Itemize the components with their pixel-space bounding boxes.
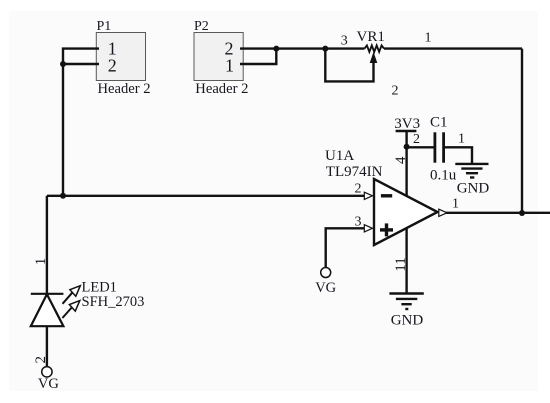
svg-text:P2: P2 (194, 19, 209, 34)
wire P1 pin1 to left vertical (63, 49, 99, 64)
wire op-amp pin4 power (405, 147, 407, 200)
svg-text:P1: P1 (97, 19, 112, 34)
svg-text:3: 3 (341, 34, 348, 49)
ground symbol at C1 (455, 164, 488, 178)
wire P2 pin1 loop (240, 49, 276, 64)
header P2 (194, 33, 243, 81)
svg-text:SFH_2703: SFH_2703 (82, 294, 145, 310)
wire P2 to VR1 node (276, 47, 325, 49)
op-amp U1A triangle (374, 179, 438, 245)
svg-text:1: 1 (452, 197, 459, 212)
diode LED1 symbol (31, 294, 64, 326)
power 3V3 symbol (396, 131, 417, 147)
wire LED branch vertical (46, 196, 48, 294)
wire P1 pin2 (63, 63, 99, 65)
junction 3V3 node (404, 144, 410, 150)
svg-text:11: 11 (393, 257, 409, 271)
wire VR1 wiper pin2 loop (325, 49, 373, 82)
svg-text:3: 3 (355, 214, 362, 229)
op-amp minus input arrowhead (364, 192, 372, 199)
svg-text:1: 1 (458, 132, 465, 147)
VR1 wiper arrowhead (370, 52, 378, 63)
junction P2 pins (273, 46, 279, 52)
svg-text:VR1: VR1 (357, 29, 385, 45)
junction output node (519, 210, 525, 216)
svg-text:1: 1 (225, 55, 234, 75)
ground symbol at op-amp pin11 (389, 294, 423, 310)
wire VR1 pin3 segment (325, 47, 364, 49)
op-amp output arrowhead (439, 209, 447, 216)
svg-text:Header 2: Header 2 (195, 81, 248, 97)
wire LED1 to VG (46, 326, 48, 367)
svg-text:3V3: 3V3 (394, 116, 420, 132)
capacitor C1 (435, 132, 444, 162)
wire C1 to ground (444, 147, 472, 163)
wire op-amp minus input bus (47, 195, 365, 197)
wire left vertical (62, 64, 64, 196)
svg-text:1: 1 (33, 258, 49, 266)
svg-text:0.1u: 0.1u (430, 168, 457, 184)
op-amp minus sign (381, 194, 392, 197)
svg-text:2: 2 (355, 181, 362, 196)
svg-text:Header 2: Header 2 (98, 81, 151, 97)
LED1 emission arrow upper (63, 286, 81, 304)
wire output to right edge (446, 212, 550, 214)
junction P1 pins (60, 61, 66, 67)
svg-text:VG: VG (38, 376, 59, 392)
junction left bus (60, 193, 66, 199)
wire 3V3 to C1 (407, 146, 434, 148)
port VG circle at op-amp (321, 268, 331, 278)
junction VR1 pin3 node (322, 46, 328, 52)
svg-text:TL974IN: TL974IN (326, 164, 383, 180)
wire P2 pin2 to junction (240, 47, 276, 49)
svg-text:GND: GND (391, 313, 424, 329)
wire right vertical feedback (521, 49, 523, 213)
svg-text:2: 2 (413, 132, 420, 147)
op-amp plus input arrowhead (364, 225, 372, 232)
svg-text:4: 4 (393, 156, 409, 164)
svg-text:U1A: U1A (325, 148, 354, 164)
wire op-amp plus input from VG (326, 228, 365, 267)
svg-text:VG: VG (315, 280, 336, 296)
svg-text:2: 2 (392, 84, 399, 99)
svg-text:GND: GND (457, 180, 490, 196)
wire op-amp pin11 to ground (405, 226, 407, 294)
LED1 emission arrow lower (62, 301, 79, 318)
svg-text:1: 1 (425, 31, 432, 46)
op-amp plus sign (380, 223, 393, 236)
svg-text:C1: C1 (430, 115, 448, 131)
svg-text:2: 2 (108, 55, 117, 75)
potentiometer VR1 body zigzag (365, 45, 385, 51)
wire VR1 pin1 segment to right edge (384, 47, 522, 49)
header P1 (96, 33, 145, 81)
port VG circle at LED (42, 367, 52, 377)
